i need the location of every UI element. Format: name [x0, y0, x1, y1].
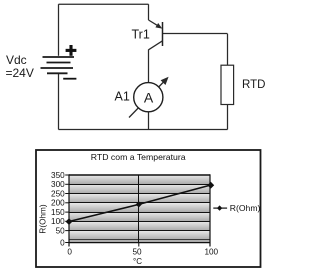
gridline 300	[69, 184, 210, 186]
svg-text:R(Ohm): R(Ohm)	[230, 203, 261, 213]
wire: left drop from top rail to battery top plate	[58, 4, 60, 56]
legend key line	[213, 207, 227, 209]
battery B1 (Vdc =24V)	[41, 57, 75, 73]
gridline 100	[69, 221, 210, 223]
wire: collector drop from top rail	[148, 4, 150, 20]
battery minus sign	[63, 78, 76, 80]
wire: bottom rail	[59, 129, 228, 131]
transistor Tr1	[149, 20, 163, 50]
wire: emitter to ammeter	[148, 50, 150, 83]
ammeter A1 arrow	[129, 77, 169, 118]
svg-text:200: 200	[51, 198, 65, 207]
y axis ticks	[65, 175, 139, 247]
marker point (0,100)	[66, 218, 73, 225]
battery plus sign	[66, 45, 77, 56]
svg-text:RTD com a Temperatura: RTD com a Temperatura	[91, 152, 186, 162]
wire: top rail from battery + to transistor branch	[59, 3, 149, 5]
svg-text:300: 300	[51, 180, 65, 189]
svg-text:350: 350	[51, 171, 65, 180]
svg-text:°C: °C	[133, 257, 142, 266]
y axis labels	[51, 171, 65, 247]
svg-text:A1: A1	[115, 90, 130, 104]
plot border	[69, 174, 210, 246]
resistor RTD	[221, 65, 234, 104]
svg-text:0: 0	[60, 238, 65, 247]
vertical gridline at 50C	[138, 175, 140, 243]
Tr1 lower lead diagonal	[149, 41, 163, 50]
series R(Ohm) line	[69, 185, 211, 222]
chart frame	[36, 150, 261, 267]
x axis tick at 50	[138, 243, 140, 247]
svg-text:R(Ohm): R(Ohm)	[39, 204, 48, 233]
svg-text:50: 50	[132, 248, 142, 257]
Tr1 emitter arrow (top lead)	[149, 20, 159, 26]
wire: base lead of Tr1 to RTD branch	[162, 33, 228, 35]
svg-text:100: 100	[204, 248, 218, 257]
svg-text:100: 100	[51, 217, 65, 226]
Tr1 bar	[162, 22, 164, 46]
svg-text:RTD: RTD	[242, 79, 265, 91]
svg-text:50: 50	[56, 226, 66, 235]
gridline 200	[69, 202, 210, 204]
svg-text:0: 0	[67, 248, 72, 257]
x axis labels	[67, 248, 218, 257]
svg-text:Tr1: Tr1	[132, 28, 150, 42]
svg-text:150: 150	[51, 208, 65, 217]
svg-text:=24V: =24V	[6, 66, 34, 80]
wire: RTD branch top	[227, 34, 229, 65]
gridline 150	[69, 212, 210, 214]
wire: battery bottom plate down to bottom rail	[58, 73, 60, 129]
marker point (50,200)	[136, 201, 142, 207]
svg-text:A: A	[144, 89, 154, 105]
legend key marker	[217, 205, 222, 210]
wire: RTD bottom to bottom rail	[227, 105, 229, 130]
gridline 50	[69, 230, 210, 232]
ammeter A1 circle	[134, 83, 163, 112]
svg-text:Vdc: Vdc	[6, 53, 27, 67]
gridline 250	[69, 193, 210, 195]
wire: ammeter bottom to bottom rail	[148, 112, 150, 130]
gridline 0	[69, 239, 210, 241]
svg-text:250: 250	[51, 189, 65, 198]
plot area background	[69, 175, 210, 243]
marker point (100,300)	[207, 182, 214, 189]
